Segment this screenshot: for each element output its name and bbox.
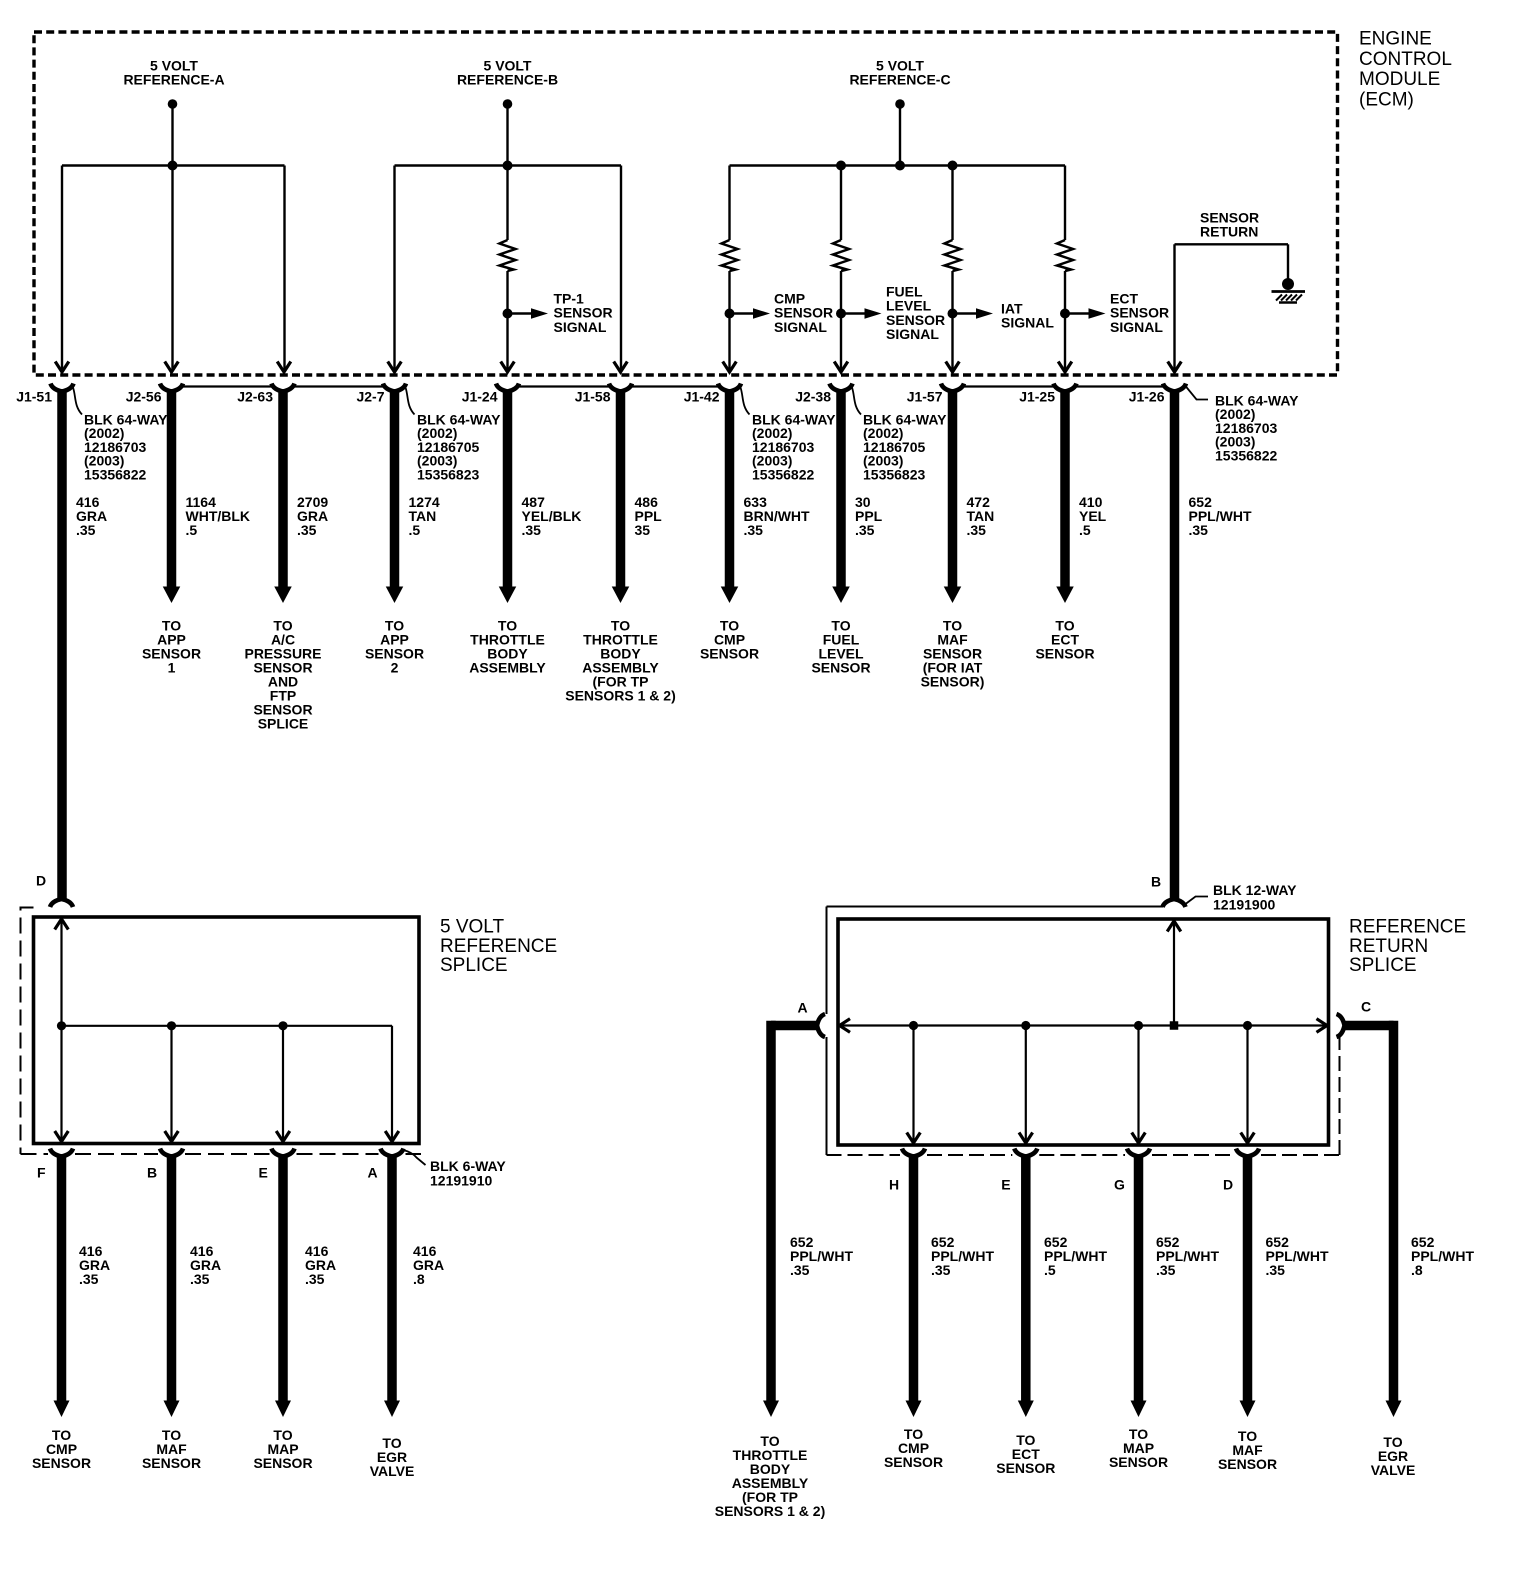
- wire IAT resistor to signal node: [951, 271, 953, 371]
- 5V reference-C feed dot: [895, 99, 905, 109]
- wire reference-A drop to J2-56: [171, 166, 173, 372]
- svg-text:E: E: [1001, 1177, 1010, 1193]
- svg-text:15356822: 15356822: [752, 466, 815, 482]
- svg-text:15356822: 15356822: [1215, 447, 1278, 463]
- resistor TP-1 pull-up: [500, 240, 516, 271]
- wire return splice D output: [1243, 1155, 1253, 1401]
- wire reference-B feed stem: [506, 104, 508, 166]
- svg-text:VALVE: VALVE: [1371, 1462, 1416, 1478]
- wire reference-B bus: [395, 164, 622, 167]
- svg-text:.5: .5: [409, 522, 421, 538]
- svg-text:12191900: 12191900: [1213, 897, 1276, 913]
- splice output cup E: [272, 1149, 295, 1157]
- svg-text:SIGNAL: SIGNAL: [886, 326, 939, 342]
- svg-text:RETURN: RETURN: [1200, 223, 1258, 239]
- svg-text:SENSOR: SENSOR: [1035, 646, 1094, 662]
- connector pin J1-24 cup: [496, 384, 519, 392]
- connector callout J1-26 leader: [1186, 386, 1209, 400]
- svg-text:SENSORS 1 & 2): SENSORS 1 & 2): [565, 688, 675, 704]
- svg-text:REFERENCE-C: REFERENCE-C: [849, 72, 950, 88]
- reference return splice outer boundary: [827, 906, 1164, 908]
- return splice output cup D: [1236, 1149, 1259, 1157]
- wire sensor return to ground: [1287, 244, 1289, 280]
- svg-text:REFERENCE: REFERENCE: [440, 936, 557, 957]
- wire reference-B drop to J1-58: [620, 166, 622, 372]
- svg-text:15356823: 15356823: [417, 466, 480, 482]
- wire splice D vertical: [60, 917, 62, 1144]
- connector callout J1-51 leader: [73, 388, 82, 415]
- svg-text:F: F: [37, 1165, 46, 1181]
- svg-text:A: A: [368, 1165, 378, 1181]
- wire fuel level resistor to signal node: [840, 271, 842, 371]
- wire reference-C drop upper segment at IAT: [951, 166, 953, 241]
- wire J1-51 long run to 5V reference splice: [57, 390, 67, 901]
- svg-text:SPLICE: SPLICE: [1349, 955, 1417, 976]
- svg-text:G: G: [1114, 1177, 1125, 1193]
- connector pin J1-58 cup: [609, 384, 632, 392]
- wire return splice drop H: [912, 1026, 914, 1146]
- svg-text:SIGNAL: SIGNAL: [774, 319, 827, 335]
- wire J2-63 to harness: [278, 390, 288, 588]
- svg-text:J2-7: J2-7: [356, 389, 384, 405]
- svg-text:SENSOR: SENSOR: [253, 1455, 312, 1471]
- wire IAT signal tap arrow: [953, 312, 977, 314]
- junction dot splice bus at D: [57, 1021, 66, 1030]
- junction dot splice bus at E: [278, 1021, 287, 1030]
- svg-text:SPLICE: SPLICE: [258, 716, 309, 732]
- svg-text:SENSOR): SENSOR): [921, 674, 985, 690]
- wire return splice drop G: [1137, 1026, 1139, 1146]
- svg-text:J1-25: J1-25: [1019, 389, 1055, 405]
- junction square dot at B: [1170, 1021, 1179, 1030]
- wire return splice E output: [1021, 1155, 1031, 1401]
- reference return splice connector B cup: [1163, 899, 1186, 907]
- splice side entry A cup: [817, 1014, 825, 1037]
- svg-text:.35: .35: [1189, 522, 1209, 538]
- svg-text:.35: .35: [931, 1262, 951, 1278]
- svg-text:SENSOR: SENSOR: [142, 1455, 201, 1471]
- 5V reference-A feed dot: [168, 99, 178, 109]
- return splice output cup H: [902, 1149, 925, 1157]
- svg-text:SENSOR: SENSOR: [884, 1454, 943, 1470]
- wire ECT signal tap arrow: [1065, 312, 1089, 314]
- svg-text:SENSOR: SENSOR: [1218, 1456, 1277, 1472]
- svg-text:VALVE: VALVE: [370, 1463, 415, 1479]
- wire A output arrow: [763, 1401, 779, 1418]
- svg-text:.8: .8: [1411, 1262, 1423, 1278]
- connector pin J1-25 cup: [1054, 384, 1077, 392]
- svg-text:SENSORS 1 & 2): SENSORS 1 & 2): [715, 1503, 825, 1519]
- junction dot return bus at H: [909, 1021, 918, 1030]
- wire J2-7 to harness: [390, 390, 400, 588]
- junction dot ECT signal: [1060, 309, 1070, 319]
- wire reference-A feed stem: [171, 104, 173, 166]
- svg-text:.35: .35: [744, 522, 764, 538]
- svg-text:(ECM): (ECM): [1359, 89, 1414, 110]
- svg-text:12191910: 12191910: [430, 1173, 493, 1189]
- splice output cup A: [381, 1149, 404, 1157]
- wire reference-C bus: [730, 164, 1066, 167]
- resistor ECT pull-up: [1057, 240, 1073, 271]
- svg-text:.35: .35: [76, 522, 96, 538]
- wire return splice bus: [838, 1024, 1329, 1026]
- svg-text:D: D: [1223, 1177, 1233, 1193]
- wire splice E output: [278, 1155, 288, 1401]
- splice side entry C wire: [1344, 1021, 1394, 1031]
- svg-text:J1-24: J1-24: [462, 389, 498, 405]
- resistor IAT pull-up: [945, 240, 961, 271]
- svg-text:1: 1: [168, 660, 176, 676]
- svg-text:J1-57: J1-57: [907, 389, 943, 405]
- svg-text:.35: .35: [190, 1271, 210, 1287]
- junction dot reference-C at IAT drop: [948, 161, 958, 171]
- svg-text:.35: .35: [297, 522, 317, 538]
- connector pin J2-63 cup: [272, 384, 295, 392]
- svg-text:SIGNAL: SIGNAL: [1110, 319, 1163, 335]
- svg-text:SENSOR: SENSOR: [811, 660, 870, 676]
- svg-text:2: 2: [391, 660, 399, 676]
- svg-text:.5: .5: [186, 522, 198, 538]
- reference return splice box: [838, 919, 1329, 1145]
- resistor CMP pull-up: [722, 240, 738, 271]
- svg-text:J1-51: J1-51: [16, 389, 52, 405]
- junction dot splice bus at B: [167, 1021, 176, 1030]
- svg-text:B: B: [147, 1165, 157, 1181]
- svg-text:E: E: [259, 1165, 268, 1181]
- svg-text:SIGNAL: SIGNAL: [554, 319, 607, 335]
- svg-text:.35: .35: [522, 522, 542, 538]
- svg-text:REFERENCE-B: REFERENCE-B: [457, 72, 558, 88]
- wire splice drop A: [391, 1026, 393, 1144]
- wire splice A output: [387, 1155, 397, 1401]
- connector pin J2-38 cup: [830, 384, 853, 392]
- junction dot CMP signal: [725, 309, 735, 319]
- svg-text:J2-38: J2-38: [795, 389, 831, 405]
- wire splice drop B: [170, 1026, 172, 1144]
- wire ECT resistor to signal node: [1064, 271, 1066, 371]
- wire reference-A drop to J1-51: [61, 166, 63, 372]
- wire CMP signal tap arrow: [730, 312, 754, 314]
- wire J2-56 to harness: [167, 390, 177, 588]
- junction dot reference-A bus: [168, 161, 178, 171]
- connector bracket lines: [183, 385, 272, 387]
- wire J1-42 to harness: [725, 390, 735, 588]
- connector callout J1-42 leader: [741, 388, 750, 415]
- svg-text:SENSOR: SENSOR: [1109, 1454, 1168, 1470]
- svg-text:RETURN: RETURN: [1349, 936, 1428, 957]
- junction dot IAT signal: [948, 309, 958, 319]
- svg-text:5 VOLT: 5 VOLT: [440, 917, 504, 938]
- wire C output arrow: [1386, 1401, 1402, 1418]
- connector pin J1-51 cup: [51, 384, 74, 392]
- junction dot return bus at D: [1243, 1021, 1252, 1030]
- splice output cup F: [50, 1149, 73, 1157]
- wire reference-C drop upper segment at ECT: [1064, 166, 1066, 241]
- connector callout BLK 6-WAY leader: [403, 1150, 426, 1165]
- svg-text:J2-63: J2-63: [237, 389, 273, 405]
- svg-text:SIGNAL: SIGNAL: [1001, 315, 1054, 331]
- svg-text:.8: .8: [413, 1271, 425, 1287]
- junction dot return bus at G: [1134, 1021, 1143, 1030]
- junction dot reference-C at CMP drop: [836, 161, 846, 171]
- svg-text:B: B: [1151, 874, 1161, 890]
- wire reference-C drop upper segment at fuel level: [840, 166, 842, 241]
- wire reference-B drop to J2-7: [393, 166, 395, 372]
- splice side entry A wire: [771, 1021, 817, 1031]
- 5V reference splice box: [34, 917, 420, 1144]
- svg-text:H: H: [889, 1177, 899, 1193]
- wire return splice drop E: [1025, 1026, 1027, 1146]
- svg-text:.5: .5: [1044, 1262, 1056, 1278]
- return splice output cup E: [1014, 1149, 1037, 1157]
- connector callout J2-7 leader: [406, 388, 415, 415]
- wire TP-1 signal tap arrow: [508, 312, 532, 314]
- wire reference-B drop upper segment to TP resistor: [506, 166, 508, 241]
- connector pin J2-7 cup: [383, 384, 406, 392]
- svg-text:.35: .35: [305, 1271, 325, 1287]
- connector callout J2-38 leader: [852, 388, 861, 415]
- svg-text:J1-58: J1-58: [575, 389, 611, 405]
- ECM module dashed boundary box: [34, 32, 1338, 375]
- wire CMP resistor to signal node: [728, 271, 730, 371]
- svg-text:ASSEMBLY: ASSEMBLY: [469, 660, 546, 676]
- wire J1-24 to harness: [503, 390, 513, 588]
- svg-text:ENGINE: ENGINE: [1359, 29, 1432, 50]
- splice output cup B: [160, 1149, 183, 1157]
- 5V reference splice outer boundary: [21, 908, 34, 1155]
- wire reference-A bus: [62, 164, 285, 167]
- wire J1-25 to harness: [1060, 390, 1070, 588]
- connector callout BLK 12-WAY leader: [1186, 897, 1209, 905]
- wire sensor return horizontal: [1175, 243, 1289, 245]
- svg-text:.35: .35: [967, 522, 987, 538]
- svg-text:SENSOR: SENSOR: [700, 646, 759, 662]
- connector pin J1-42 cup: [718, 384, 741, 392]
- junction dot reference-C feed: [895, 161, 905, 171]
- svg-text:C: C: [1361, 999, 1371, 1015]
- wire fuel level signal tap arrow: [841, 312, 865, 314]
- junction dot fuel level signal: [836, 309, 846, 319]
- svg-text:SPLICE: SPLICE: [440, 955, 508, 976]
- wire return splice H output: [909, 1155, 919, 1401]
- connector pin J1-26 cup: [1163, 384, 1186, 392]
- svg-text:35: 35: [635, 522, 651, 538]
- ground symbol: [1282, 278, 1294, 290]
- svg-text:15356822: 15356822: [84, 466, 147, 482]
- wire J1-58 to harness: [616, 390, 626, 588]
- splice side entry C cup: [1337, 1014, 1345, 1037]
- junction dot return bus at E: [1021, 1021, 1030, 1030]
- svg-text:.35: .35: [790, 1262, 810, 1278]
- resistor fuel level pull-up: [833, 240, 849, 271]
- connector pin J1-57 cup: [941, 384, 964, 392]
- 5V reference splice connector D cup: [50, 899, 73, 907]
- wire reference-C drop upper segment at CMP: [728, 166, 730, 241]
- wire reference-A drop to J2-63: [283, 166, 285, 372]
- 5V reference-B feed dot: [503, 99, 513, 109]
- wire return splice B vertical: [1173, 919, 1175, 1026]
- connector pin J2-56 cup: [160, 384, 183, 392]
- svg-text:CONTROL: CONTROL: [1359, 49, 1452, 70]
- svg-text:J1-26: J1-26: [1129, 389, 1165, 405]
- wire reference-C feed stem: [899, 104, 901, 166]
- wire J2-38 to harness: [836, 390, 846, 588]
- svg-text:MODULE: MODULE: [1359, 69, 1440, 90]
- svg-text:REFERENCE-A: REFERENCE-A: [123, 72, 224, 88]
- wire J1-26 long run to reference return splice: [1170, 390, 1180, 901]
- wire splice bus: [62, 1025, 393, 1027]
- svg-text:J2-56: J2-56: [126, 389, 162, 405]
- wire return splice G output: [1134, 1155, 1144, 1401]
- svg-text:SENSOR: SENSOR: [996, 1460, 1055, 1476]
- svg-text:15356823: 15356823: [863, 466, 926, 482]
- wire splice B output: [167, 1155, 177, 1401]
- svg-text:D: D: [36, 873, 46, 889]
- svg-text:.35: .35: [1156, 1262, 1176, 1278]
- junction dot reference-B bus: [503, 161, 513, 171]
- junction dot TP-1 signal: [503, 309, 513, 319]
- wire splice drop E: [282, 1026, 284, 1144]
- svg-text:.35: .35: [855, 522, 875, 538]
- return splice output cup G: [1127, 1149, 1150, 1157]
- wire splice F output: [57, 1155, 67, 1401]
- svg-text:A: A: [798, 1000, 808, 1016]
- svg-text:.35: .35: [79, 1271, 99, 1287]
- wire TP resistor to TP-1 signal node: [506, 271, 508, 371]
- wire return splice drop D: [1246, 1026, 1248, 1146]
- svg-text:J1-42: J1-42: [684, 389, 720, 405]
- svg-text:REFERENCE: REFERENCE: [1349, 917, 1466, 938]
- wire sensor return drop to J1-26: [1173, 244, 1175, 371]
- wire J1-57 to harness: [948, 390, 958, 588]
- svg-text:.35: .35: [1266, 1262, 1286, 1278]
- svg-text:SENSOR: SENSOR: [32, 1455, 91, 1471]
- svg-text:.5: .5: [1079, 522, 1091, 538]
